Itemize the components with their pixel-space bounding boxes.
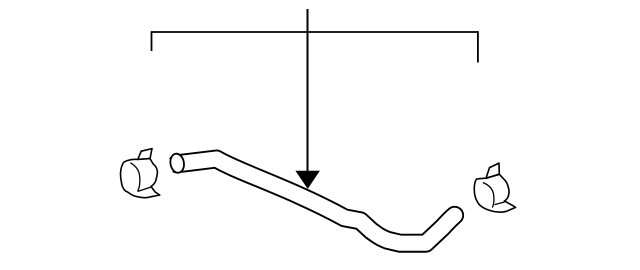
bracket left tick bbox=[151, 31, 153, 51]
bracket horizontal line bbox=[152, 31, 479, 33]
clamp left C1 (tab) bbox=[138, 149, 152, 160]
clamp right C2 (inner face lines) bbox=[483, 183, 505, 208]
clamp left C1 (body) bbox=[121, 159, 160, 198]
hose open end wipe bbox=[165, 158, 178, 171]
hose body (water hose) bbox=[177, 159, 455, 243]
leader arrow shaft bbox=[307, 9, 309, 172]
clamp right C2 (body) bbox=[474, 174, 515, 212]
clamp right C2 (tab) bbox=[486, 163, 499, 178]
clamp left C1 (inner face lines) bbox=[130, 163, 152, 192]
hose open end ellipse bbox=[169, 153, 186, 174]
leader arrowhead bbox=[295, 171, 320, 189]
bracket right tick bbox=[477, 31, 479, 62]
